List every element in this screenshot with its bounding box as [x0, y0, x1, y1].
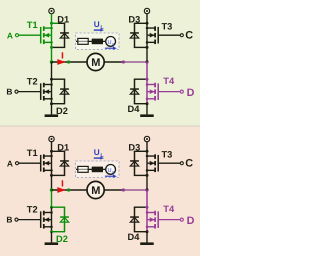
svg-text:M: M	[91, 57, 100, 69]
diode D1	[60, 151, 69, 175]
wire rail top-right	[134, 150, 147, 152]
diode D2	[60, 79, 69, 104]
arrow UL	[94, 157, 101, 159]
transistor T2	[41, 83, 53, 101]
wire T2 bus	[51, 79, 53, 104]
wire to ground right	[146, 104, 148, 115]
svg-text:T1: T1	[27, 148, 38, 158]
wire gate lead D	[159, 219, 180, 221]
ground right	[140, 114, 154, 117]
wire supply-left drop	[51, 141, 53, 151]
diode D3	[130, 23, 139, 47]
wire to right node	[125, 189, 147, 191]
svg-text:D4: D4	[128, 104, 141, 114]
wire rail bottom of T4/D4	[134, 103, 147, 105]
wire bus to right node	[146, 175, 148, 190]
node supply-right junction	[146, 22, 149, 25]
wire gate lead C	[159, 162, 180, 164]
node T3-source junction	[146, 46, 149, 49]
svg-text:D1: D1	[57, 15, 69, 25]
wire rail top of T4/D4	[134, 206, 147, 208]
wire rail bottom-left of T1/D1	[52, 46, 66, 48]
node T1-source junction	[50, 46, 53, 49]
wire right node down to T4	[146, 62, 148, 79]
svg-text:U: U	[94, 148, 100, 157]
svg-text:T2: T2	[27, 77, 38, 87]
resistor R (motor model)	[78, 166, 88, 172]
node T2-drain junction	[50, 78, 53, 81]
wire gate lead B	[18, 91, 40, 93]
background upper panel (drive phase)	[0, 0, 200, 125]
wire rail top of T4/D4	[134, 78, 147, 80]
svg-text:M: M	[91, 185, 100, 197]
wire to right node	[125, 61, 147, 63]
svg-text:D: D	[187, 87, 195, 99]
wire supply-left drop	[51, 13, 53, 23]
node supply-left junction	[50, 150, 53, 153]
svg-text:A: A	[7, 158, 13, 168]
transistor T4	[146, 83, 158, 101]
svg-text:D3: D3	[128, 143, 140, 153]
wire left node down to T2	[51, 190, 53, 207]
supply terminal right	[144, 8, 149, 13]
wire bus to right node	[146, 47, 148, 62]
wire left node to motor	[52, 61, 87, 63]
wire gate lead B	[18, 219, 40, 221]
wire supply-right drop	[146, 141, 148, 151]
wire rail bottom of T3/D3	[134, 46, 147, 48]
wire T1 bus	[51, 151, 53, 175]
wire rail top of T2/D2	[52, 206, 66, 208]
diode D1	[60, 23, 69, 47]
wire gate lead D	[159, 91, 180, 93]
transistor T1	[41, 26, 53, 44]
node T2-source junction	[50, 102, 53, 105]
background lower panel (freewheel phase)	[0, 127, 200, 256]
node T2-source junction	[50, 230, 53, 233]
svg-text:C: C	[185, 158, 193, 170]
svg-text:T1: T1	[27, 20, 38, 30]
label i current	[62, 180, 64, 186]
resistor R (motor model)	[78, 38, 88, 44]
motor M	[87, 181, 104, 198]
diode D4	[130, 79, 139, 104]
transistor T3	[146, 26, 158, 44]
svg-text:q: q	[112, 169, 114, 174]
wire supply-right drop	[146, 13, 148, 23]
wire rail bottom of T2/D2	[52, 231, 66, 233]
wire T3 bus	[146, 23, 148, 47]
inset dashed box	[76, 33, 120, 50]
svg-text:C: C	[185, 30, 193, 42]
svg-text:D1: D1	[57, 143, 69, 153]
wire bus to left node	[51, 47, 53, 62]
node left bridge output	[50, 60, 53, 63]
node motor left terminal	[67, 60, 70, 63]
wire bus to left node	[51, 175, 53, 190]
transistor T1	[41, 154, 53, 172]
wire rail bottom of T3/D3	[134, 174, 147, 176]
supply terminal left	[49, 8, 54, 13]
svg-text:T3: T3	[162, 21, 173, 31]
node T4-source junction	[146, 102, 149, 105]
wire to ground left	[51, 104, 53, 115]
node motor right terminal	[122, 188, 125, 191]
wire rail bottom of T2/D2	[52, 103, 66, 105]
transistor T3	[146, 154, 158, 172]
motor M	[87, 53, 104, 70]
svg-text:D3: D3	[128, 15, 140, 25]
supply terminal left	[49, 136, 54, 141]
node supply-right junction	[146, 150, 149, 153]
wire rail top-left	[52, 22, 59, 24]
ground left	[45, 114, 59, 117]
svg-text:T2: T2	[27, 205, 38, 215]
wire T4 bus	[146, 207, 148, 232]
wire rail top of T2/D2	[52, 78, 66, 80]
wire left node down to T2	[51, 62, 53, 79]
wire rail top-left	[52, 150, 66, 152]
wire rail bottom-left of T1/D1	[52, 174, 66, 176]
wire T3 bus	[146, 151, 148, 175]
wire motor to right	[104, 61, 122, 63]
svg-text:D: D	[187, 215, 195, 227]
wire gate lead A	[19, 34, 40, 36]
wire to ground left	[51, 232, 53, 243]
wire T1 bus	[51, 23, 53, 47]
wire gate lead C	[159, 34, 180, 36]
svg-text:T4: T4	[163, 76, 175, 86]
ground right	[140, 242, 154, 245]
inset dashed box	[76, 161, 120, 178]
arrow Uq	[105, 175, 113, 177]
diode D2	[60, 207, 69, 232]
svg-text:D2: D2	[56, 234, 68, 244]
source Uq (back-EMF)	[106, 37, 116, 47]
node T1-source junction	[50, 174, 53, 177]
inductor L (motor model)	[92, 167, 103, 173]
node T4-source junction	[146, 230, 149, 233]
wire rail bottom of T4/D4	[134, 231, 147, 233]
panel separator	[0, 125, 200, 126]
wire T4 bus	[146, 79, 148, 104]
supply terminal right	[144, 136, 149, 141]
wire gate lead A	[19, 162, 40, 164]
diode D3	[130, 151, 139, 175]
diode D4	[130, 207, 139, 232]
transistor T2	[41, 211, 53, 229]
svg-text:T4: T4	[163, 204, 175, 214]
wire T2 bus	[51, 207, 53, 232]
svg-text:D2: D2	[56, 106, 68, 116]
source Uq (back-EMF)	[106, 165, 116, 175]
wire motor to right	[104, 189, 122, 191]
node T2-drain junction	[50, 206, 53, 209]
node right bridge output	[145, 60, 148, 63]
arrow Uq	[105, 47, 113, 49]
svg-text:B: B	[6, 86, 12, 96]
svg-text:T3: T3	[162, 149, 173, 159]
node motor left terminal	[67, 188, 70, 191]
node T4-drain junction	[146, 78, 149, 81]
current arrow	[57, 59, 66, 65]
wire to ground right	[146, 232, 148, 243]
wire left node to motor	[52, 189, 87, 191]
inductor L (motor model)	[92, 39, 103, 45]
wire inside inset	[76, 40, 106, 42]
ground left	[45, 242, 59, 245]
svg-text:U: U	[94, 20, 100, 29]
node T4-drain junction	[146, 206, 149, 209]
svg-text:q: q	[112, 41, 114, 46]
node supply-left junction	[50, 22, 53, 25]
svg-text:D4: D4	[128, 232, 141, 242]
node T3-source junction	[146, 174, 149, 177]
node right bridge output	[145, 188, 148, 191]
node left bridge output	[50, 188, 53, 191]
svg-text:A: A	[7, 30, 13, 40]
transistor T4	[146, 211, 158, 229]
current arrow	[57, 187, 66, 193]
svg-text:B: B	[6, 214, 12, 224]
wire inside inset	[76, 168, 106, 170]
arrow UL	[94, 29, 101, 31]
wire rail top-right	[134, 22, 147, 24]
node motor right terminal	[122, 60, 125, 63]
label i current	[62, 52, 64, 58]
wire right node down to T4	[146, 190, 148, 207]
